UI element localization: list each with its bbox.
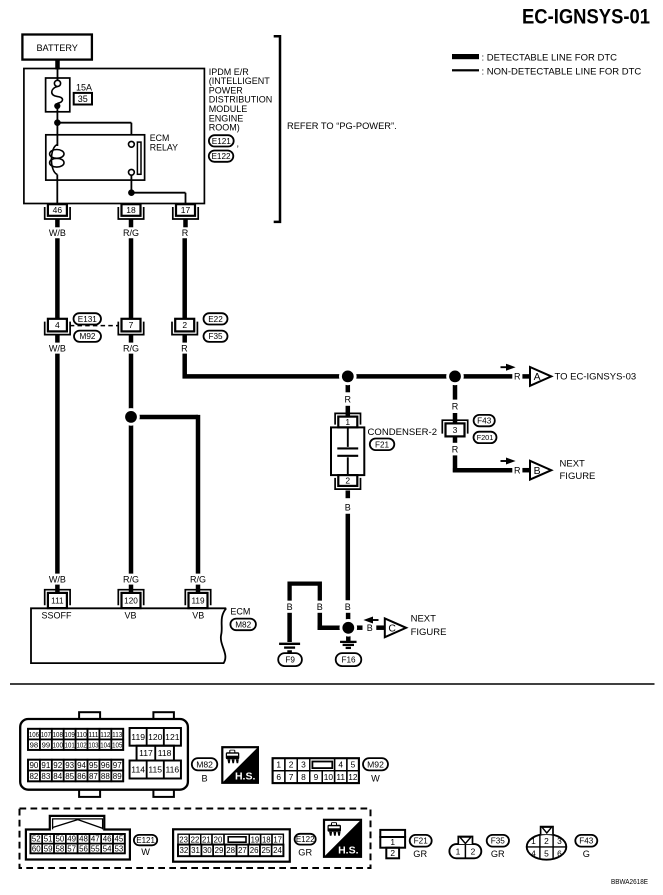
svg-text:46: 46 — [103, 835, 112, 844]
svg-text:50: 50 — [56, 835, 65, 844]
svg-text:GR: GR — [298, 847, 312, 857]
svg-text:1: 1 — [276, 759, 281, 769]
svg-text:ECM: ECM — [150, 133, 170, 143]
svg-text:120: 120 — [148, 732, 163, 742]
svg-text:R: R — [182, 228, 189, 238]
svg-text:VB: VB — [192, 611, 204, 621]
svg-text:FIGURE: FIGURE — [560, 471, 596, 482]
svg-text:103: 103 — [88, 740, 98, 749]
svg-text:47: 47 — [91, 835, 100, 844]
svg-text:REFER TO “PG-POWER”.: REFER TO “PG-POWER”. — [287, 121, 397, 131]
svg-text:5: 5 — [544, 848, 549, 858]
svg-text:M82: M82 — [235, 620, 251, 629]
svg-text:29: 29 — [215, 846, 224, 855]
svg-text:59: 59 — [44, 844, 53, 853]
svg-text:10: 10 — [324, 772, 334, 782]
svg-text:32: 32 — [179, 846, 188, 855]
svg-text:54: 54 — [103, 844, 112, 853]
svg-text:100: 100 — [53, 740, 63, 749]
svg-text:,: , — [237, 139, 240, 149]
svg-text:E22: E22 — [208, 315, 223, 324]
svg-text:F16: F16 — [341, 656, 356, 665]
svg-text:NEXT: NEXT — [411, 613, 437, 624]
svg-text:86: 86 — [77, 772, 86, 781]
svg-text:F201: F201 — [477, 433, 494, 442]
svg-text:24: 24 — [273, 846, 282, 855]
svg-text:31: 31 — [191, 846, 200, 855]
svg-text:52: 52 — [32, 835, 41, 844]
svg-text:W/B: W/B — [49, 343, 66, 353]
svg-text:27: 27 — [238, 846, 247, 855]
svg-text:W/B: W/B — [49, 574, 66, 584]
svg-text:111: 111 — [51, 596, 64, 605]
svg-text:GR: GR — [413, 849, 427, 859]
svg-text:99: 99 — [42, 740, 51, 749]
svg-text:4: 4 — [338, 759, 343, 769]
svg-text:TO EC-IGNSYS-03: TO EC-IGNSYS-03 — [555, 372, 637, 383]
svg-text:F9: F9 — [285, 656, 295, 665]
svg-text:: DETECTABLE LINE FOR DTC: : DETECTABLE LINE FOR DTC — [482, 52, 618, 63]
svg-text:2: 2 — [182, 320, 187, 330]
svg-text:92: 92 — [53, 761, 62, 770]
svg-text:2: 2 — [471, 847, 476, 857]
svg-text:109: 109 — [65, 730, 75, 739]
svg-text:3: 3 — [453, 425, 458, 435]
svg-text:3: 3 — [557, 836, 562, 846]
svg-text:A: A — [534, 372, 541, 383]
svg-text:GR: GR — [491, 849, 505, 859]
svg-text:120: 120 — [124, 596, 138, 605]
svg-text:25: 25 — [261, 846, 270, 855]
svg-text:108: 108 — [53, 730, 63, 739]
svg-text:5: 5 — [351, 759, 356, 769]
svg-text:107: 107 — [41, 730, 51, 739]
svg-text:30: 30 — [203, 846, 212, 855]
svg-text:R: R — [345, 394, 352, 404]
svg-text:98: 98 — [30, 740, 39, 749]
svg-text:87: 87 — [89, 772, 98, 781]
svg-text:22: 22 — [191, 835, 200, 844]
svg-text:26: 26 — [250, 846, 259, 855]
svg-text:1: 1 — [345, 417, 350, 427]
svg-text:W/B: W/B — [49, 228, 66, 238]
svg-text:B: B — [287, 602, 293, 612]
svg-text:12: 12 — [348, 772, 358, 782]
svg-text:F43: F43 — [579, 837, 594, 846]
svg-text:11: 11 — [336, 772, 345, 782]
svg-text:2: 2 — [390, 848, 395, 858]
svg-text:35: 35 — [78, 94, 88, 104]
svg-text:113: 113 — [112, 730, 122, 739]
svg-text:H.S.: H.S. — [235, 770, 256, 782]
svg-text:BATTERY: BATTERY — [36, 43, 78, 53]
svg-text:2: 2 — [544, 836, 549, 846]
svg-text:7: 7 — [289, 772, 294, 782]
svg-text:104: 104 — [100, 740, 111, 749]
svg-text:102: 102 — [76, 740, 86, 749]
svg-text:15A: 15A — [76, 83, 92, 93]
svg-text:W: W — [371, 774, 380, 784]
svg-text:57: 57 — [67, 844, 76, 853]
svg-text:E122: E122 — [296, 835, 315, 844]
svg-text:M92: M92 — [80, 332, 96, 341]
svg-text:R: R — [514, 465, 521, 475]
svg-text:RELAY: RELAY — [150, 142, 178, 152]
svg-text:21: 21 — [202, 835, 211, 844]
svg-text:BBWA2618E: BBWA2618E — [611, 877, 648, 886]
svg-text:46: 46 — [53, 205, 63, 215]
svg-text:18: 18 — [126, 205, 136, 215]
svg-text:118: 118 — [158, 748, 172, 758]
svg-text:B: B — [534, 466, 541, 477]
svg-text:121: 121 — [165, 732, 180, 742]
svg-text:ROOM): ROOM) — [209, 123, 240, 133]
svg-text:83: 83 — [41, 772, 50, 781]
svg-text:51: 51 — [44, 835, 53, 844]
svg-text:VB: VB — [124, 611, 136, 621]
svg-text:17: 17 — [181, 205, 191, 215]
svg-text:45: 45 — [115, 835, 124, 844]
svg-text:F35: F35 — [208, 332, 223, 341]
svg-text:4: 4 — [55, 320, 60, 330]
svg-text:97: 97 — [113, 761, 122, 770]
svg-text:F43: F43 — [477, 417, 492, 426]
svg-text:R/G: R/G — [123, 228, 139, 238]
svg-text:B: B — [367, 623, 373, 633]
svg-text:19: 19 — [251, 835, 260, 844]
svg-text:C: C — [388, 624, 396, 635]
svg-text:F21: F21 — [414, 837, 429, 846]
svg-text:2: 2 — [289, 759, 294, 769]
svg-text:FIGURE: FIGURE — [411, 627, 447, 638]
svg-text:18: 18 — [262, 835, 271, 844]
svg-text:CONDENSER-2: CONDENSER-2 — [368, 427, 438, 437]
svg-text:17: 17 — [273, 835, 282, 844]
svg-text:117: 117 — [139, 748, 153, 758]
svg-text:89: 89 — [113, 772, 122, 781]
svg-text:20: 20 — [214, 835, 223, 844]
svg-text:96: 96 — [101, 761, 110, 770]
svg-text:E121: E121 — [212, 137, 232, 146]
svg-text:E121: E121 — [136, 836, 155, 845]
svg-text:E131: E131 — [78, 315, 98, 324]
svg-text:95: 95 — [89, 761, 98, 770]
svg-text:R: R — [514, 372, 521, 382]
svg-text:R: R — [181, 343, 188, 353]
svg-text:3: 3 — [301, 759, 306, 769]
svg-text:49: 49 — [67, 835, 76, 844]
svg-text:9: 9 — [314, 772, 319, 782]
svg-text:93: 93 — [65, 761, 74, 770]
svg-text:G: G — [583, 849, 590, 859]
svg-text:R/G: R/G — [123, 574, 139, 584]
svg-text:53: 53 — [115, 844, 124, 853]
svg-text:55: 55 — [91, 844, 100, 853]
svg-text:116: 116 — [165, 765, 179, 775]
svg-text:4: 4 — [531, 848, 536, 858]
svg-text:6: 6 — [557, 848, 562, 858]
svg-text:1: 1 — [531, 836, 536, 846]
svg-text:7: 7 — [129, 320, 134, 330]
svg-text:85: 85 — [65, 772, 74, 781]
svg-text:F21: F21 — [375, 440, 390, 449]
svg-text:48: 48 — [79, 835, 88, 844]
svg-text:28: 28 — [226, 846, 235, 855]
svg-text:NEXT: NEXT — [560, 458, 586, 469]
svg-text:R/G: R/G — [190, 574, 206, 584]
svg-text:23: 23 — [179, 835, 188, 844]
svg-text:H.S.: H.S. — [338, 844, 359, 856]
svg-text:110: 110 — [76, 730, 86, 739]
svg-text:114: 114 — [131, 765, 145, 775]
svg-text:1: 1 — [456, 847, 461, 857]
svg-text:84: 84 — [53, 772, 62, 781]
svg-text:90: 90 — [29, 761, 38, 770]
svg-text:R: R — [452, 402, 459, 412]
svg-text:101: 101 — [65, 740, 75, 749]
svg-text:88: 88 — [101, 772, 110, 781]
svg-text:: NON-DETECTABLE LINE FOR DTC: : NON-DETECTABLE LINE FOR DTC — [482, 67, 642, 78]
svg-text:R/G: R/G — [123, 343, 139, 353]
svg-text:W: W — [141, 847, 150, 857]
svg-text:106: 106 — [29, 730, 39, 739]
svg-text:119: 119 — [131, 732, 145, 742]
svg-text:2: 2 — [345, 476, 350, 486]
svg-text:8: 8 — [301, 772, 306, 782]
svg-text:58: 58 — [56, 844, 65, 853]
svg-text:ECM: ECM — [230, 606, 250, 616]
svg-text:112: 112 — [100, 730, 110, 739]
svg-text:60: 60 — [32, 844, 41, 853]
svg-text:B: B — [202, 774, 208, 784]
svg-text:56: 56 — [79, 844, 88, 853]
svg-text:R: R — [452, 444, 459, 454]
svg-text:SSOFF: SSOFF — [42, 611, 73, 621]
svg-text:1: 1 — [390, 837, 395, 847]
svg-text:B: B — [345, 503, 351, 513]
svg-text:119: 119 — [191, 596, 204, 605]
svg-text:E122: E122 — [211, 152, 231, 161]
svg-text:94: 94 — [77, 761, 86, 770]
svg-text:91: 91 — [41, 761, 50, 770]
svg-text:B: B — [345, 602, 351, 612]
svg-text:6: 6 — [276, 772, 281, 782]
svg-text:82: 82 — [29, 772, 38, 781]
svg-text:M82: M82 — [196, 759, 213, 769]
svg-text:B: B — [317, 602, 323, 612]
svg-text:F35: F35 — [491, 837, 506, 846]
svg-text:M92: M92 — [367, 759, 384, 769]
svg-text:115: 115 — [148, 765, 162, 775]
svg-text:111: 111 — [88, 730, 98, 739]
svg-text:EC-IGNSYS-01: EC-IGNSYS-01 — [522, 5, 650, 29]
svg-text:105: 105 — [112, 740, 122, 749]
